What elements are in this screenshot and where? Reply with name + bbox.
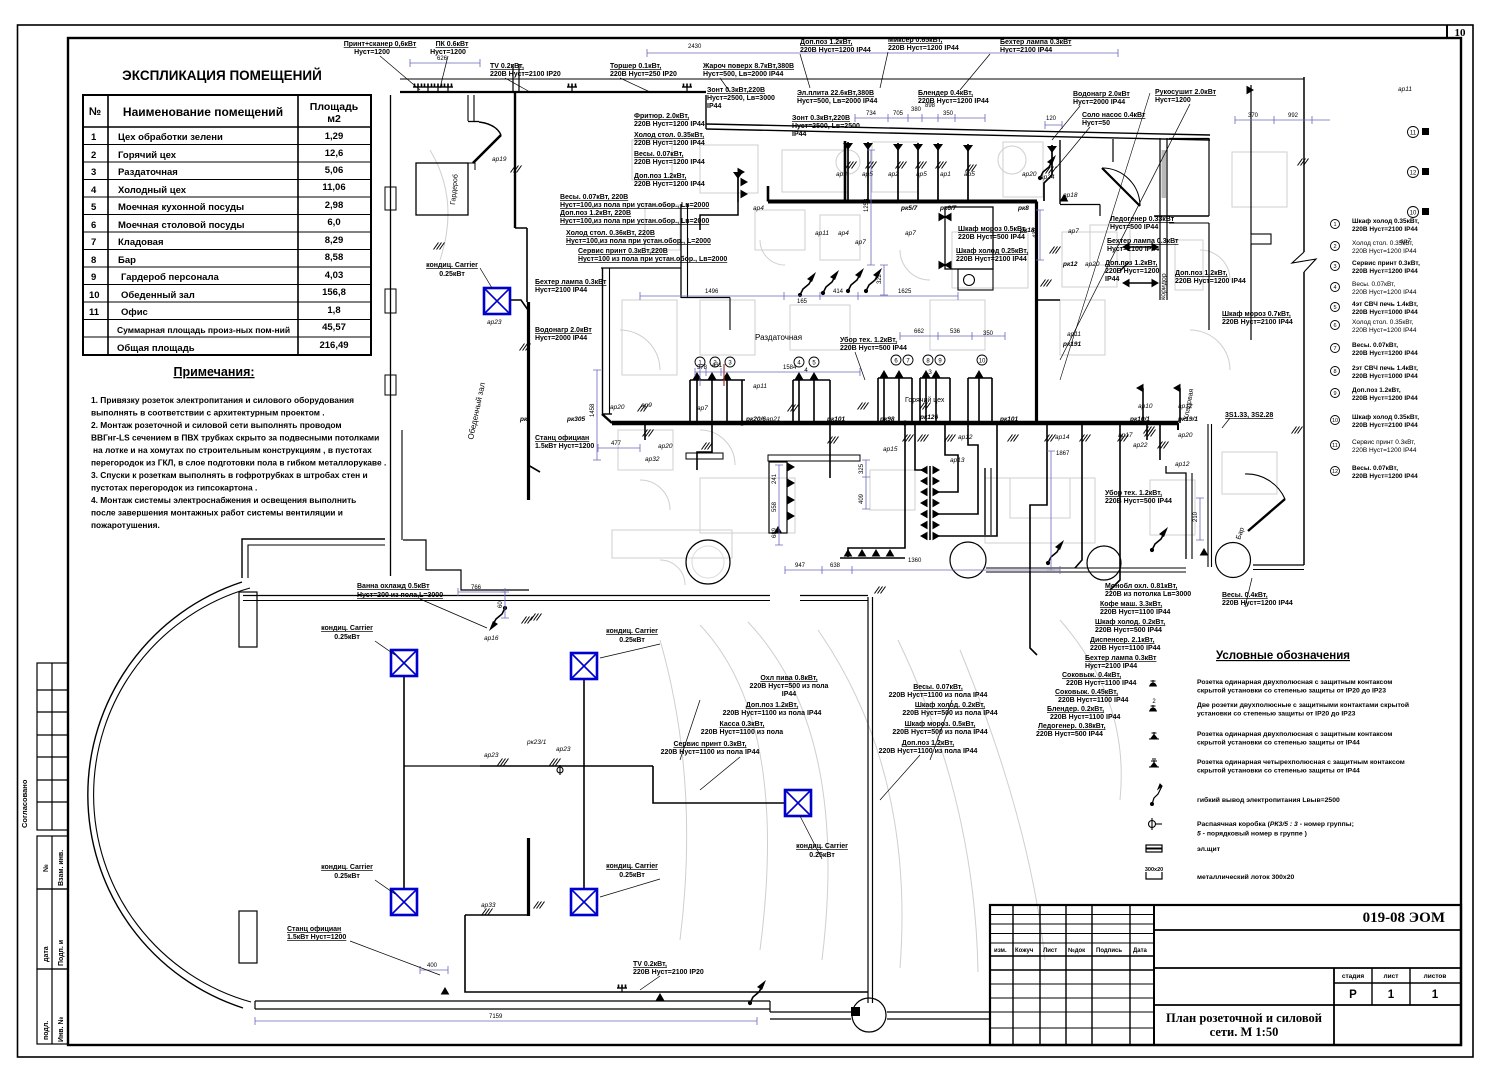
svg-text:Бехтер лампа 0.3кВт: Бехтер лампа 0.3кВт bbox=[1107, 238, 1179, 245]
svg-text:220В Нуст=2100 IP20: 220В Нуст=2100 IP20 bbox=[633, 969, 704, 976]
svg-text:Доп.поз 1.2кВт,: Доп.поз 1.2кВт, bbox=[902, 740, 954, 747]
svg-text:сети. М 1:50: сети. М 1:50 bbox=[1210, 1025, 1279, 1039]
svg-text:рк: рк bbox=[519, 416, 528, 423]
air conditioner units (кондиц. Carrier) bbox=[391, 288, 811, 915]
svg-text:3: 3 bbox=[728, 361, 732, 367]
svg-text:Нуст=500, Lв=2000 IP44: Нуст=500, Lв=2000 IP44 bbox=[797, 98, 877, 105]
svg-text:220В Нуст=2100 IP44: 220В Нуст=2100 IP44 bbox=[1222, 319, 1293, 326]
svg-text:6: 6 bbox=[894, 359, 898, 365]
svg-text:Кладовая: Кладовая bbox=[118, 237, 164, 248]
svg-text:рк19/1: рк19/1 bbox=[1177, 416, 1198, 423]
svg-text:Шкаф мороз. 0.5кВт,: Шкаф мороз. 0.5кВт, bbox=[905, 721, 976, 728]
svg-text:ар5: ар5 bbox=[916, 171, 927, 178]
svg-text:ар4: ар4 bbox=[838, 230, 849, 237]
svg-text:ар7: ар7 bbox=[905, 230, 916, 237]
svg-text:гибкий вывод электропитания Lв: гибкий вывод электропитания Lвыв=2500 bbox=[1197, 796, 1340, 804]
svg-text:Зонт 0.3кВт,220В: Зонт 0.3кВт,220В bbox=[792, 115, 850, 122]
svg-text:Бехтер лампа 0.3кВт: Бехтер лампа 0.3кВт bbox=[1000, 39, 1072, 46]
triangle row bottom connector bbox=[840, 557, 905, 559]
wires and buses bbox=[404, 64, 1309, 1005]
svg-text:Нуст=50: Нуст=50 bbox=[1082, 120, 1110, 127]
svg-text:установки со степенью защиты о: установки со степенью защиты от IP20 до … bbox=[1197, 711, 1356, 718]
svg-text:Наименование помещений: Наименование помещений bbox=[123, 105, 283, 119]
svg-text:1.5кВт Нуст=1200: 1.5кВт Нуст=1200 bbox=[535, 443, 594, 450]
svg-text:пустотах перегородок из гипсок: пустотах перегородок из гипсокартона . bbox=[91, 483, 257, 493]
svg-text:992: 992 bbox=[1288, 113, 1299, 119]
svg-text:№: № bbox=[42, 864, 50, 872]
svg-text:7: 7 bbox=[906, 359, 910, 365]
svg-text:220В Нуст=2100 IP44: 220В Нуст=2100 IP44 bbox=[956, 256, 1027, 263]
svg-text:1: 1 bbox=[1432, 989, 1439, 1001]
svg-text:Блендер 0.4кВт,: Блендер 0.4кВт, bbox=[918, 90, 973, 97]
left thick riser wiring bbox=[510, 300, 528, 310]
svg-text:350: 350 bbox=[983, 331, 994, 337]
svg-text:кондиц. Carrier: кондиц. Carrier bbox=[321, 625, 373, 632]
svg-text:5: 5 bbox=[1333, 305, 1336, 311]
wall: upper building edge line bbox=[400, 78, 1304, 80]
wall: left partition with pilasters bbox=[390, 95, 392, 576]
wire: socket group risers above main bus bbox=[690, 380, 745, 423]
svg-text:Холод стол. 0.35кВт,: Холод стол. 0.35кВт, bbox=[1352, 319, 1414, 326]
svg-text:220В Нуст=1200 IP44: 220В Нуст=1200 IP44 bbox=[1352, 268, 1418, 275]
svg-text:ар24: ар24 bbox=[1040, 174, 1055, 181]
svg-text:536: 536 bbox=[950, 329, 961, 335]
svg-text:Зонт 0.3кВт,220В: Зонт 0.3кВт,220В bbox=[707, 87, 765, 94]
svg-text:1,8: 1,8 bbox=[327, 305, 340, 316]
socket combs on top wall bbox=[413, 84, 423, 92]
svg-text:ар7: ар7 bbox=[855, 239, 866, 246]
gray underlay equipment bbox=[430, 140, 1287, 972]
svg-text:3: 3 bbox=[928, 369, 932, 376]
svg-text:8: 8 bbox=[1333, 369, 1336, 375]
svg-text:Водонагр 2.0кВт: Водонагр 2.0кВт bbox=[1073, 91, 1130, 98]
svg-text:Торшер 0.1кВт,: Торшер 0.1кВт, bbox=[610, 63, 661, 70]
svg-text:9: 9 bbox=[938, 359, 942, 365]
svg-text:ар5: ар5 bbox=[862, 171, 873, 178]
sheet number box 10 bbox=[1447, 25, 1466, 39]
columns (round) bbox=[686, 540, 730, 584]
svg-text:Принт+сканер 0,6кВт: Принт+сканер 0,6кВт bbox=[344, 41, 417, 48]
svg-text:Ледогенер 0.33кВт: Ледогенер 0.33кВт bbox=[1110, 216, 1175, 223]
svg-text:Ледогенер. 0.38кВт,: Ледогенер. 0.38кВт, bbox=[1038, 723, 1106, 730]
svg-text:Р: Р bbox=[1349, 989, 1357, 1001]
svg-text:10: 10 bbox=[89, 290, 100, 301]
wall: bar partition down to column bbox=[867, 597, 869, 1003]
svg-text:Раздаточная: Раздаточная bbox=[118, 167, 178, 178]
svg-text:7: 7 bbox=[91, 237, 96, 248]
svg-text:Эл.плита 22.6кВт,380В: Эл.плита 22.6кВт,380В bbox=[797, 90, 874, 97]
svg-text:220В Нуст=1200 IP44: 220В Нуст=1200 IP44 bbox=[1352, 289, 1417, 296]
svg-text:0.25кВт: 0.25кВт bbox=[334, 873, 360, 880]
aircon unit bar area bbox=[785, 790, 811, 816]
svg-text:11: 11 bbox=[1332, 443, 1338, 449]
svg-text:4: 4 bbox=[804, 367, 808, 374]
svg-text:ар11: ар11 bbox=[1398, 86, 1412, 93]
wall: slanted corridor partition bbox=[706, 124, 1210, 135]
left revision grid bbox=[1012, 905, 1014, 1045]
svg-text:Нуст=100 из пола при устан.обо: Нуст=100 из пола при устан.обор., Lв=200… bbox=[578, 255, 727, 263]
svg-text:60: 60 bbox=[498, 601, 504, 608]
svg-text:220В Нуст=1100 IP44: 220В Нуст=1100 IP44 bbox=[1090, 645, 1161, 652]
svg-text:1625: 1625 bbox=[898, 289, 912, 295]
svg-text:эл.щит: эл.щит bbox=[1197, 846, 1221, 853]
right part bbox=[1154, 929, 1461, 931]
svg-text:2эт СВЧ печь 1.4кВт,: 2эт СВЧ печь 1.4кВт, bbox=[1352, 365, 1418, 372]
svg-text:Инв. №: Инв. № bbox=[57, 1017, 65, 1042]
svg-text:Распаячная коробка (РК3/5 : 3: Распаячная коробка (РК3/5 : 3 - номер гр… bbox=[1197, 820, 1354, 828]
svg-text:Нуст=2500, Lв=2500: Нуст=2500, Lв=2500 bbox=[792, 123, 860, 130]
svg-text:ар10: ар10 bbox=[1138, 403, 1153, 410]
svg-text:2: 2 bbox=[91, 150, 96, 161]
svg-text:ар11: ар11 bbox=[753, 383, 767, 390]
svg-text:734: 734 bbox=[866, 111, 877, 117]
svg-text:Офис: Офис bbox=[121, 307, 148, 318]
svg-text:ар23: ар23 bbox=[487, 319, 502, 326]
svg-text:Горячий цех: Горячий цех bbox=[118, 150, 177, 161]
svg-text:8: 8 bbox=[926, 359, 930, 365]
svg-text:рк20/6: рк20/6 bbox=[745, 416, 766, 423]
svg-text:Шкаф холод 0.25кВт,: Шкаф холод 0.25кВт, bbox=[956, 248, 1028, 255]
margin vertical texts bbox=[20, 779, 65, 1042]
svg-text:370: 370 bbox=[1248, 113, 1259, 119]
svg-text:10: 10 bbox=[979, 359, 986, 365]
svg-text:0.25кВт: 0.25кВт bbox=[334, 634, 360, 641]
panel symbol bbox=[1146, 845, 1162, 852]
svg-text:Розетка одинарная двухполюсная: Розетка одинарная двухполюсная с защитны… bbox=[1197, 731, 1392, 738]
svg-text:Холод стол. 0.35кВт,: Холод стол. 0.35кВт, bbox=[1352, 240, 1414, 247]
svg-text:скрытой установки со степенью: скрытой установки со степенью защиты от … bbox=[1197, 687, 1386, 695]
svg-text:Жароч поверх 8.7кВт,380В: Жароч поверх 8.7кВт,380В bbox=[702, 63, 794, 70]
svg-text:ар1: ар1 bbox=[940, 171, 951, 178]
svg-text:220В Нуст=500 IP44: 220В Нуст=500 IP44 bbox=[1095, 627, 1162, 634]
svg-text:ар22: ар22 bbox=[1133, 442, 1148, 449]
svg-text:6,0: 6,0 bbox=[327, 217, 340, 228]
wall: bottom exterior wall bbox=[255, 1000, 770, 1002]
svg-text:ар9: ар9 bbox=[641, 402, 652, 409]
svg-text:409: 409 bbox=[859, 493, 865, 504]
svg-text:ар20: ар20 bbox=[1022, 171, 1037, 178]
svg-text:рк12: рк12 bbox=[1062, 261, 1078, 268]
svg-text:Холод стол. 0.36кВт, 220В: Холод стол. 0.36кВт, 220В bbox=[566, 230, 655, 237]
svg-text:Подп. и: Подп. и bbox=[58, 940, 65, 966]
svg-text:на лотке и на хомутах по строи: на лотке и на хомутах по строительным ко… bbox=[93, 445, 372, 455]
svg-text:1: 1 bbox=[91, 132, 97, 143]
svg-text:IP44: IP44 bbox=[792, 131, 807, 138]
svg-text:400: 400 bbox=[427, 963, 438, 969]
svg-text:8,58: 8,58 bbox=[325, 252, 344, 263]
svg-text:2430: 2430 bbox=[688, 44, 702, 50]
svg-text:Моечная столовой посуды: Моечная столовой посуды bbox=[118, 220, 244, 231]
svg-text:1: 1 bbox=[1388, 989, 1395, 1001]
svg-text:ар14: ар14 bbox=[1055, 434, 1070, 441]
wall: dining hall top partition bbox=[243, 595, 770, 597]
svg-text:Горячий цех: Горячий цех bbox=[905, 396, 945, 404]
svg-text:Монобл охл. 0.81кВт,: Монобл охл. 0.81кВт, bbox=[1105, 582, 1177, 590]
svg-text:6: 6 bbox=[91, 220, 96, 231]
svg-text:ПК 0.6кВт: ПК 0.6кВт bbox=[436, 41, 469, 48]
svg-text:м2: м2 bbox=[327, 113, 341, 125]
flexible power outputs (гибкий вывод) bbox=[798, 272, 816, 297]
red revision tick bbox=[723, 364, 725, 386]
svg-text:7: 7 bbox=[1333, 346, 1336, 352]
wall: bar area partitions and door bbox=[1166, 466, 1186, 559]
svg-text:9: 9 bbox=[91, 272, 96, 283]
wire: air conditioner feed wires (ар23/ар33 circuits) bbox=[403, 676, 405, 889]
equipment: freezer cabinet box bbox=[945, 207, 993, 269]
svg-text:Весы. 0.07кВт,: Весы. 0.07кВт, bbox=[913, 684, 963, 691]
svg-text:1867: 1867 bbox=[1056, 451, 1070, 457]
svg-text:0.25кВт: 0.25кВт bbox=[619, 872, 645, 879]
svg-text:Нуст=100,из пола при устан.обо: Нуст=100,из пола при устан.обор., Lв=200… bbox=[560, 217, 709, 225]
wall: kitchen left boundary (thick riser wall) bbox=[514, 92, 516, 228]
svg-text:8,29: 8,29 bbox=[325, 235, 344, 246]
svg-text:220В Нуст=250 IP20: 220В Нуст=250 IP20 bbox=[610, 71, 677, 78]
svg-text:4. Монтаж системы электроснабж: 4. Монтаж системы электроснабжения и осв… bbox=[91, 495, 356, 505]
svg-text:0.25кВт: 0.25кВт bbox=[619, 637, 645, 644]
svg-text:12: 12 bbox=[1332, 469, 1338, 475]
svg-text:Весы. 0.07кВт,: Весы. 0.07кВт, bbox=[1352, 342, 1398, 349]
svg-text:Рукосушит 2.0кВт: Рукосушит 2.0кВт bbox=[1155, 89, 1217, 96]
svg-text:220В Нуст=2100 IP44: 220В Нуст=2100 IP44 bbox=[1352, 422, 1418, 429]
misc right wiring bbox=[1129, 246, 1152, 248]
svg-text:Нуст=1200: Нуст=1200 bbox=[1155, 97, 1191, 104]
svg-text:Нуст=1200: Нуст=1200 bbox=[354, 49, 390, 56]
svg-text:2: 2 bbox=[1333, 244, 1336, 250]
svg-text:Нуст=100,из пола при устан.обо: Нуст=100,из пола при устан.обор., L=2000 bbox=[566, 237, 711, 245]
svg-text:Нуст=200 из пола,L=3000: Нуст=200 из пола,L=3000 bbox=[357, 592, 443, 599]
svg-text:220В Нуст=1100 IP44: 220В Нуст=1100 IP44 bbox=[1100, 609, 1171, 616]
svg-text:ар4: ар4 bbox=[753, 205, 764, 212]
svg-text:ар16: ар16 bbox=[484, 635, 499, 642]
svg-text:Взам. инв.: Взам. инв. bbox=[58, 850, 65, 886]
svg-text:Весы. 0.07кВт, 220В: Весы. 0.07кВт, 220В bbox=[560, 194, 628, 201]
svg-text:220В Нуст=1200 IP44: 220В Нуст=1200 IP44 bbox=[1352, 395, 1418, 402]
svg-text:ар21: ар21 bbox=[766, 416, 781, 423]
svg-text:изм.: изм. bbox=[994, 948, 1007, 954]
svg-text:ар7: ар7 bbox=[697, 405, 708, 412]
svg-text:№: № bbox=[89, 106, 101, 118]
svg-text:ар15: ар15 bbox=[883, 446, 898, 453]
svg-text:5 - порядковый номер в группе: 5 - порядковый номер в группе ) bbox=[1197, 830, 1307, 838]
svg-text:Блендер. 0.2кВт,: Блендер. 0.2кВт, bbox=[1047, 706, 1104, 713]
svg-text:Нуст=2100 IP44: Нуст=2100 IP44 bbox=[1085, 663, 1137, 670]
wire: drop wires below main bus bbox=[644, 423, 646, 440]
svg-text:Дата: Дата bbox=[1133, 948, 1148, 954]
svg-text:10: 10 bbox=[1410, 211, 1417, 217]
svg-text:220В Нуст=1200 IP44: 220В Нуст=1200 IP44 bbox=[1222, 600, 1293, 607]
svg-text:ар12: ар12 bbox=[958, 434, 973, 441]
svg-text:1496: 1496 bbox=[705, 289, 719, 295]
svg-text:Кофе маш. 3.3кВт,: Кофе маш. 3.3кВт, bbox=[1100, 601, 1162, 608]
svg-text:рк126: рк126 bbox=[919, 414, 938, 421]
svg-text:3. Спуски к розеткам выполнять: 3. Спуски к розеткам выполнять в гофротр… bbox=[91, 470, 368, 480]
svg-text:Весы. 0.07кВт,: Весы. 0.07кВт, bbox=[1352, 465, 1398, 472]
svg-text:220В Нуст=1100 IP44: 220В Нуст=1100 IP44 bbox=[1050, 714, 1121, 721]
svg-text:380: 380 bbox=[911, 107, 922, 113]
svg-text:ЭКСПЛИКАЦИЯ ПОМЕЩЕНИЙ: ЭКСПЛИКАЦИЯ ПОМЕЩЕНИЙ bbox=[122, 68, 322, 83]
svg-text:Нуст=1200: Нуст=1200 bbox=[430, 49, 466, 56]
svg-text:№док: №док bbox=[1068, 947, 1085, 954]
svg-text:Фритюр. 2.0кВт,: Фритюр. 2.0кВт, bbox=[634, 113, 689, 120]
svg-text:120: 120 bbox=[1046, 116, 1057, 122]
svg-text:220В Нуст=1100 IP44: 220В Нуст=1100 IP44 bbox=[1058, 697, 1129, 704]
svg-text:Примечания:: Примечания: bbox=[173, 365, 254, 379]
svg-text:Бехтер лампа 0.3кВт: Бехтер лампа 0.3кВт bbox=[535, 279, 607, 286]
svg-text:Обеденный зал: Обеденный зал bbox=[121, 290, 195, 301]
svg-text:Общая площадь: Общая площадь bbox=[117, 343, 195, 354]
svg-text:220В Нуст=500 из пола IP44: 220В Нуст=500 из пола IP44 bbox=[902, 710, 997, 717]
svg-text:Диспенсер. 2.1кВт,: Диспенсер. 2.1кВт, bbox=[1090, 637, 1155, 644]
svg-text:Раздаточная: Раздаточная bbox=[755, 333, 802, 342]
svg-text:2,98: 2,98 bbox=[325, 200, 344, 211]
svg-text:ар3: ар3 bbox=[836, 171, 847, 178]
wall: wardrobe room partitions bbox=[602, 268, 604, 414]
svg-text:439: 439 bbox=[1033, 227, 1039, 238]
svg-text:220В Нуст=1100 IP44: 220В Нуст=1100 IP44 bbox=[1066, 680, 1137, 687]
svg-text:Соковыж. 0.4кВт,: Соковыж. 0.4кВт, bbox=[1062, 672, 1121, 679]
svg-text:3: 3 bbox=[1333, 264, 1336, 270]
hatch marks (circuit count ticks) bbox=[643, 430, 654, 437]
svg-text:Водонагр 2.0кВт: Водонагр 2.0кВт bbox=[535, 327, 592, 334]
svg-text:рк101: рк101 bbox=[999, 416, 1018, 423]
svg-text:кондиц. Carrier: кондиц. Carrier bbox=[796, 843, 848, 850]
svg-text:325: 325 bbox=[859, 463, 865, 474]
svg-text:220В Нуст=1100 из пола IP44: 220В Нуст=1100 из пола IP44 bbox=[879, 748, 978, 755]
svg-text:638: 638 bbox=[830, 563, 841, 569]
svg-text:3: 3 bbox=[91, 167, 96, 178]
svg-text:1: 1 bbox=[1333, 222, 1336, 228]
svg-text:рк10/1: рк10/1 bbox=[1129, 416, 1150, 423]
svg-text:431: 431 bbox=[712, 363, 723, 369]
svg-text:Бар: Бар bbox=[118, 255, 136, 266]
svg-text:ар11: ар11 bbox=[815, 230, 829, 237]
svg-text:TV 0.2кВт,: TV 0.2кВт, bbox=[490, 63, 524, 70]
svg-text:220В Нуст=1200 IP44: 220В Нуст=1200 IP44 bbox=[634, 159, 705, 166]
svg-text:Убор тех. 1.2кВт,: Убор тех. 1.2кВт, bbox=[840, 336, 897, 344]
tray symbol bbox=[1145, 867, 1163, 879]
left margin stamp boxes bbox=[37, 663, 68, 1044]
aircon unit middle lower bbox=[571, 889, 597, 915]
svg-text:кондиц. Carrier: кондиц. Carrier bbox=[426, 262, 478, 269]
svg-text:Моечная кухонной посуды: Моечная кухонной посуды bbox=[118, 202, 244, 213]
svg-text:Подпись: Подпись bbox=[1096, 948, 1122, 954]
svg-text:Сервис принт 0.3кВт,: Сервис принт 0.3кВт, bbox=[1352, 260, 1420, 267]
svg-text:Согласовано: Согласовано bbox=[20, 779, 29, 828]
svg-text:рк305: рк305 bbox=[566, 416, 585, 423]
svg-text:лист: лист bbox=[1384, 973, 1399, 980]
svg-text:Доп.поз 1.2кВт, 220В: Доп.поз 1.2кВт, 220В bbox=[560, 210, 631, 217]
svg-text:8: 8 bbox=[91, 255, 96, 266]
svg-text:ар20: ар20 bbox=[658, 443, 673, 450]
svg-text:Нуст=100,из пола при устан.обо: Нуст=100,из пола при устан.обор., Lв=200… bbox=[560, 201, 709, 209]
svg-text:выполнять в соответствии с арх: выполнять в соответствии с архитектурным… bbox=[91, 408, 325, 418]
svg-text:Станц официан: Станц официан bbox=[287, 926, 341, 933]
svg-text:11,06: 11,06 bbox=[322, 182, 345, 193]
svg-text:листов: листов bbox=[1424, 973, 1447, 980]
svg-text:7159: 7159 bbox=[489, 1014, 503, 1020]
svg-text:кондиц. Carrier: кондиц. Carrier bbox=[606, 628, 658, 635]
svg-text:322: 322 bbox=[877, 273, 883, 284]
svg-text:IP44: IP44 bbox=[707, 103, 722, 110]
svg-text:ВВГнг-LS сечением в ПВХ трубка: ВВГнг-LS сечением в ПВХ трубках скрыто з… bbox=[91, 433, 379, 443]
svg-text:Холодный цех: Холодный цех bbox=[118, 185, 187, 196]
svg-text:Убор тех. 1.2кВт,: Убор тех. 1.2кВт, bbox=[1105, 489, 1162, 497]
svg-text:ар23: ар23 bbox=[556, 746, 571, 753]
svg-text:241: 241 bbox=[772, 473, 778, 484]
svg-text:рк5/7: рк5/7 bbox=[900, 205, 918, 212]
svg-text:Шкаф мороз 0.7кВт,: Шкаф мороз 0.7кВт, bbox=[1222, 311, 1291, 318]
svg-text:558: 558 bbox=[772, 501, 778, 512]
svg-text:220В Нуст=2100 IP44: 220В Нуст=2100 IP44 bbox=[1352, 226, 1418, 233]
svg-text:0.25кВт: 0.25кВт bbox=[439, 271, 465, 278]
svg-text:4: 4 bbox=[1333, 285, 1336, 291]
svg-text:220В Нуст=1100 из пола IP44: 220В Нуст=1100 из пола IP44 bbox=[661, 749, 760, 756]
svg-text:Доп.поз 1.2кВт,: Доп.поз 1.2кВт, bbox=[1352, 387, 1401, 394]
wall: top exterior wall bbox=[400, 91, 706, 93]
svg-text:220В Нуст=500 IP44: 220В Нуст=500 IP44 bbox=[1105, 498, 1172, 505]
svg-text:ар5: ар5 bbox=[964, 171, 975, 178]
svg-text:Цех обработки зелени: Цех обработки зелени bbox=[118, 132, 223, 143]
svg-text:220В Нуст=1200: 220В Нуст=1200 bbox=[1105, 268, 1160, 275]
svg-text:1458: 1458 bbox=[590, 403, 596, 417]
svg-text:Касса 0.3кВт,: Касса 0.3кВт, bbox=[719, 721, 764, 728]
svg-text:Весы. 0.07кВт,: Весы. 0.07кВт, bbox=[634, 151, 684, 158]
wire: upper distribution bus (kitchen) bbox=[768, 200, 1037, 204]
svg-text:1.5кВт Нуст=1200: 1.5кВт Нуст=1200 bbox=[287, 934, 346, 941]
svg-text:10: 10 bbox=[1332, 418, 1338, 424]
svg-text:кондиц. Carrier: кондиц. Carrier bbox=[321, 864, 373, 871]
svg-text:5: 5 bbox=[91, 202, 97, 213]
svg-text:Шкаф холод 0.35кВт,: Шкаф холод 0.35кВт, bbox=[1352, 218, 1419, 225]
svg-text:ар19: ар19 bbox=[492, 156, 507, 163]
svg-text:220В Нуст=1100 из пола: 220В Нуст=1100 из пола bbox=[701, 729, 783, 736]
svg-text:220В Нуст=1200 IP44: 220В Нуст=1200 IP44 bbox=[1352, 473, 1418, 480]
svg-text:2. Монтаж розеточной и силовой: 2. Монтаж розеточной и силовой сети выпо… bbox=[91, 420, 342, 430]
svg-text:220В Нуст=1100 из пола IP44: 220В Нуст=1100 из пола IP44 bbox=[889, 692, 988, 699]
wall: right boundary with break symbol bbox=[1303, 77, 1305, 252]
svg-text:Соло насос 0.4кВт: Соло насос 0.4кВт bbox=[1082, 112, 1146, 119]
svg-text:12: 12 bbox=[1410, 171, 1417, 177]
svg-text:Нуст=2000 IP44: Нуст=2000 IP44 bbox=[1073, 99, 1125, 106]
svg-text:210: 210 bbox=[1193, 511, 1199, 522]
svg-text:Ванна охлажд 0.5кВт: Ванна охлажд 0.5кВт bbox=[357, 583, 430, 590]
svg-text:Нуст=500, Lв=2000 IP44: Нуст=500, Lв=2000 IP44 bbox=[703, 71, 783, 78]
svg-text:Розетка одинарная четырехполюс: Розетка одинарная четырехполюсная с защи… bbox=[1197, 759, 1405, 766]
svg-text:1. Привязку розеток электропит: 1. Привязку розеток электропитания и сил… bbox=[91, 395, 354, 405]
svg-text:626: 626 bbox=[437, 56, 448, 62]
svg-text:898: 898 bbox=[925, 103, 936, 109]
svg-text:0.25кВт: 0.25кВт bbox=[809, 852, 835, 859]
svg-text:Гардероб персонала: Гардероб персонала bbox=[121, 272, 220, 283]
counter bars mid-bottom bbox=[768, 455, 860, 461]
svg-text:1,29: 1,29 bbox=[325, 131, 344, 142]
svg-text:220В Нуст=2100 IP20: 220В Нуст=2100 IP20 bbox=[490, 71, 561, 78]
svg-text:4эт СВЧ печь 1.4кВт,: 4эт СВЧ печь 1.4кВт, bbox=[1352, 301, 1418, 308]
svg-text:Весы. 0.07кВт,: Весы. 0.07кВт, bbox=[1352, 281, 1395, 288]
svg-text:9: 9 bbox=[1333, 391, 1336, 397]
svg-text:220В Нуст=1000 IP44: 220В Нуст=1000 IP44 bbox=[1352, 309, 1418, 316]
svg-text:ар12: ар12 bbox=[1175, 461, 1190, 468]
svg-text:ар20: ар20 bbox=[1085, 261, 1100, 268]
aircon unit middle upper bbox=[571, 653, 597, 679]
svg-text:Сервис принт 0.3кВт,: Сервис принт 0.3кВт, bbox=[1352, 439, 1415, 446]
wall: banquette partition bbox=[984, 468, 986, 535]
svg-text:ар7: ар7 bbox=[1068, 228, 1079, 235]
aircon unit left upper bbox=[391, 650, 417, 676]
equipment text labels bbox=[287, 37, 1293, 976]
svg-text:подл.: подл. bbox=[43, 1021, 50, 1040]
wire: main distribution bus bbox=[612, 421, 1178, 425]
